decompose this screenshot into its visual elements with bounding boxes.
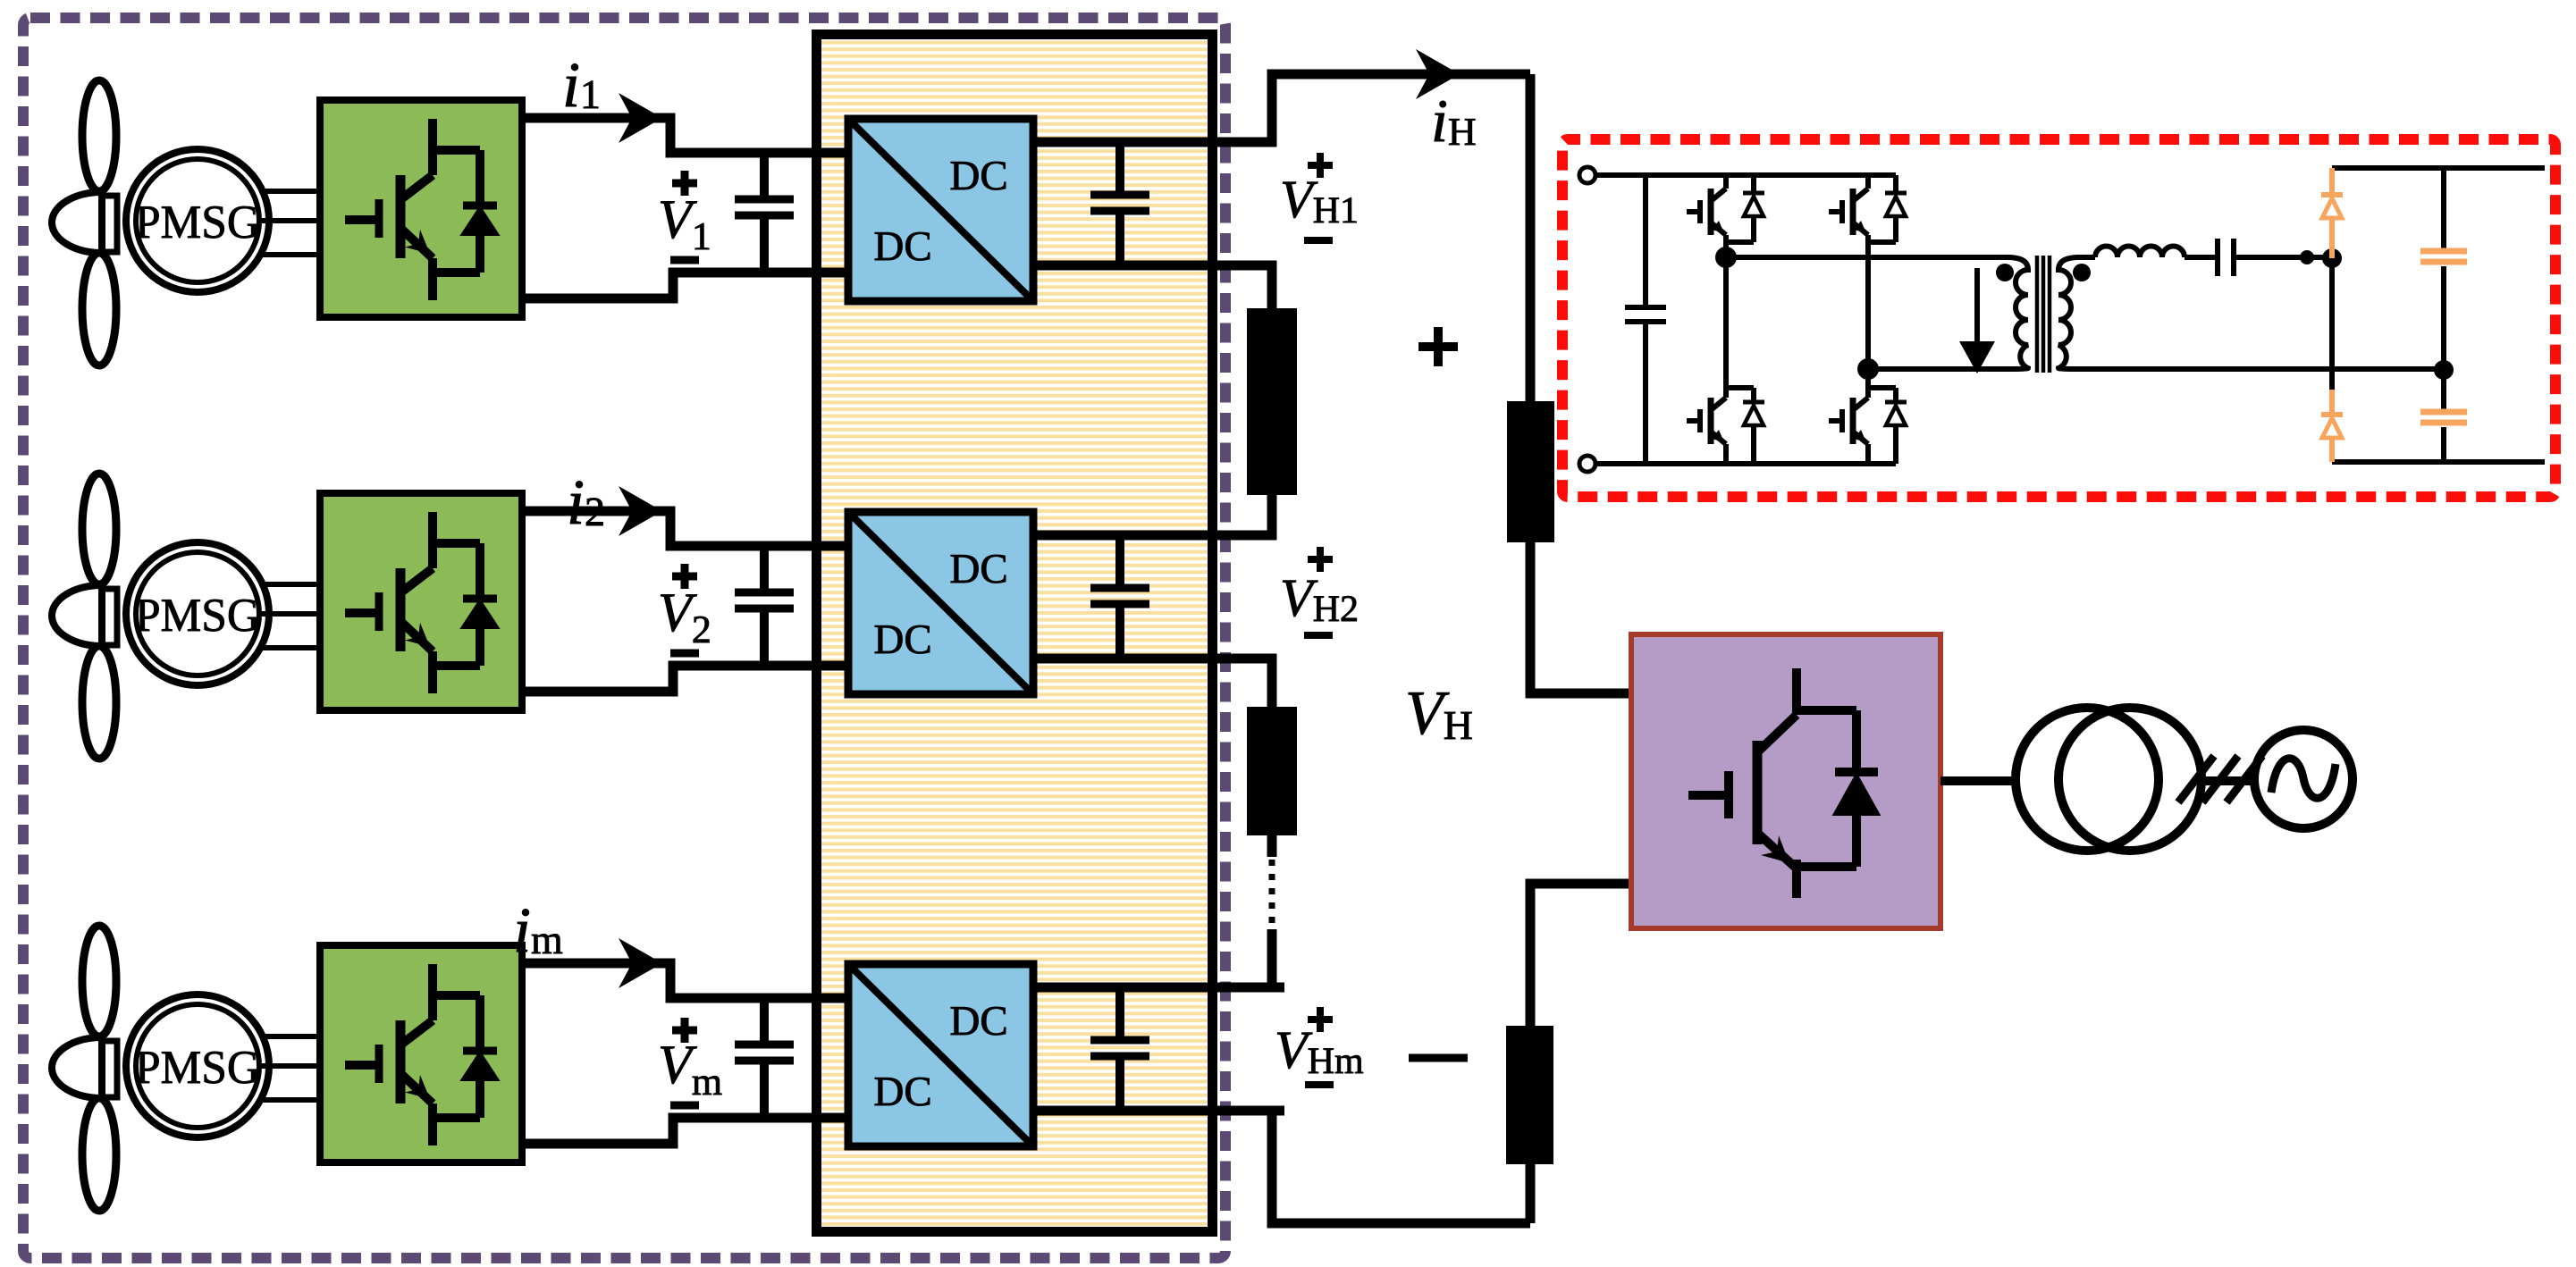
- node A (left leg midpoint): [1715, 247, 1737, 268]
- wire: inductor to grid inverter: [1530, 542, 1631, 693]
- label im: [517, 909, 562, 953]
- wire: mid node down: [2329, 258, 2335, 390]
- doubler top rail: [2332, 165, 2545, 171]
- wire: secondary top to filter: [2075, 255, 2095, 260]
- AC grid source: [2254, 730, 2353, 828]
- label + (bus polarity): [1418, 327, 1458, 366]
- doubler capacitor column: [2441, 168, 2446, 462]
- dotted continuation: [1269, 860, 1275, 927]
- series DC collection bus box (yellow hatched): [817, 35, 1213, 1232]
- IGBT emitter arrow (purple box): [1761, 835, 1789, 863]
- bridge top rail: [1595, 172, 1896, 178]
- wire: bridge mid rail to transformer primary: [1726, 255, 2011, 260]
- series inductor L2 (black bar): [1247, 707, 1297, 835]
- bridge bottom rail: [1595, 461, 1896, 466]
- diode D2: [1743, 402, 1764, 425]
- bus smoothing inductor (top bar): [1507, 401, 1554, 542]
- diode in purple box: [1835, 768, 1878, 776]
- wire: converter2 bottom output: [1212, 659, 1272, 707]
- bus negative trunk: [1526, 1164, 1536, 1223]
- iH current arrow: [1416, 49, 1460, 99]
- series capacitor: [2218, 239, 2234, 276]
- three-phase slash marks: [2178, 756, 2262, 802]
- transformer primary winding: [2008, 257, 2028, 369]
- wire below L2: [1267, 835, 1277, 857]
- wind farm dashed boundary (purple): [23, 18, 1225, 1258]
- node B (right leg midpoint): [1857, 358, 1879, 380]
- label i1: [566, 63, 598, 108]
- primary current arrow: [1974, 268, 1980, 348]
- label V1 with polarity: [672, 171, 697, 196]
- IGBT S3 (upper right): [1829, 189, 1868, 235]
- secondary polarity dot: [2073, 264, 2091, 281]
- label V2 with polarity: [672, 564, 697, 589]
- wire: capacitor to doubler node: [2235, 255, 2332, 260]
- series inductor L1 (black bar): [1247, 308, 1297, 495]
- IGBT S1 (upper left): [1687, 189, 1726, 235]
- wind turbine string 2: [52, 474, 1213, 759]
- orange diode upper: [2329, 168, 2335, 258]
- label iH: [1435, 101, 1476, 145]
- wire: inductor to series capacitor: [2185, 255, 2216, 260]
- input terminal bottom: [1579, 456, 1595, 472]
- grid transformer (two circles): [2016, 708, 2159, 851]
- wire: transformer to grid: [2201, 776, 2254, 785]
- doubler bottom rail: [2332, 459, 2545, 465]
- label Vm with polarity: [672, 1018, 697, 1043]
- wire: continuation to converter m top: [1212, 929, 1284, 987]
- HVDC bus positive trunk: [1526, 74, 1536, 401]
- output node dot: [2434, 360, 2454, 380]
- transformer secondary winding: [2058, 257, 2079, 369]
- bus smoothing inductor (bottom bar): [1506, 1026, 1553, 1164]
- wind turbine string 1: [52, 80, 1213, 365]
- IGBT S4 (lower right): [1829, 398, 1868, 444]
- label VH2 with polarity: [1308, 547, 1333, 572]
- label VH: [1409, 692, 1472, 739]
- DAB converter detail dashed boundary (red): [1562, 139, 2555, 497]
- label VHm with polarity: [1308, 1007, 1333, 1032]
- bridge input capacitor: [1643, 175, 1648, 464]
- diode D4: [1885, 402, 1907, 425]
- wire: secondary bottom to output node: [2075, 366, 2444, 372]
- input terminal top: [1579, 167, 1595, 183]
- junction dot (doubler mid node): [2322, 248, 2342, 268]
- doubler capacitor C1 plates (orange): [2420, 251, 2467, 262]
- orange diode lower: [2329, 390, 2335, 462]
- label i2: [570, 481, 603, 525]
- IGBT S2 (lower left): [1687, 398, 1726, 444]
- grid-side inverter (purple box): [1631, 634, 1940, 928]
- diode D3: [1885, 193, 1907, 216]
- wind turbine string m: [52, 926, 1213, 1211]
- label - (bus polarity): [1409, 1054, 1468, 1062]
- label VH1 with polarity: [1308, 153, 1333, 178]
- filter inductor: [2095, 247, 2185, 258]
- wire: converter1 bottom output: [1212, 265, 1272, 308]
- wire: converter m bottom to bus return: [1212, 1111, 1530, 1223]
- junction dot small: [2300, 250, 2314, 264]
- wire: node B to transformer primary bottom: [1868, 366, 2011, 372]
- wire: converter1 top output to HVDC bus: [1212, 74, 1530, 142]
- IGBT icon in purple box: [1688, 668, 1856, 898]
- wire: inverter to grid transformer: [1940, 776, 2016, 785]
- doubler capacitor C2 plates (orange): [2420, 412, 2467, 423]
- wire: grid inverter bottom to bus: [1530, 884, 1631, 1026]
- diode D1: [1743, 193, 1764, 216]
- transformer core: [2037, 256, 2050, 373]
- primary polarity dot: [1996, 264, 2014, 281]
- wire: L1 to converter2 top: [1212, 495, 1272, 535]
